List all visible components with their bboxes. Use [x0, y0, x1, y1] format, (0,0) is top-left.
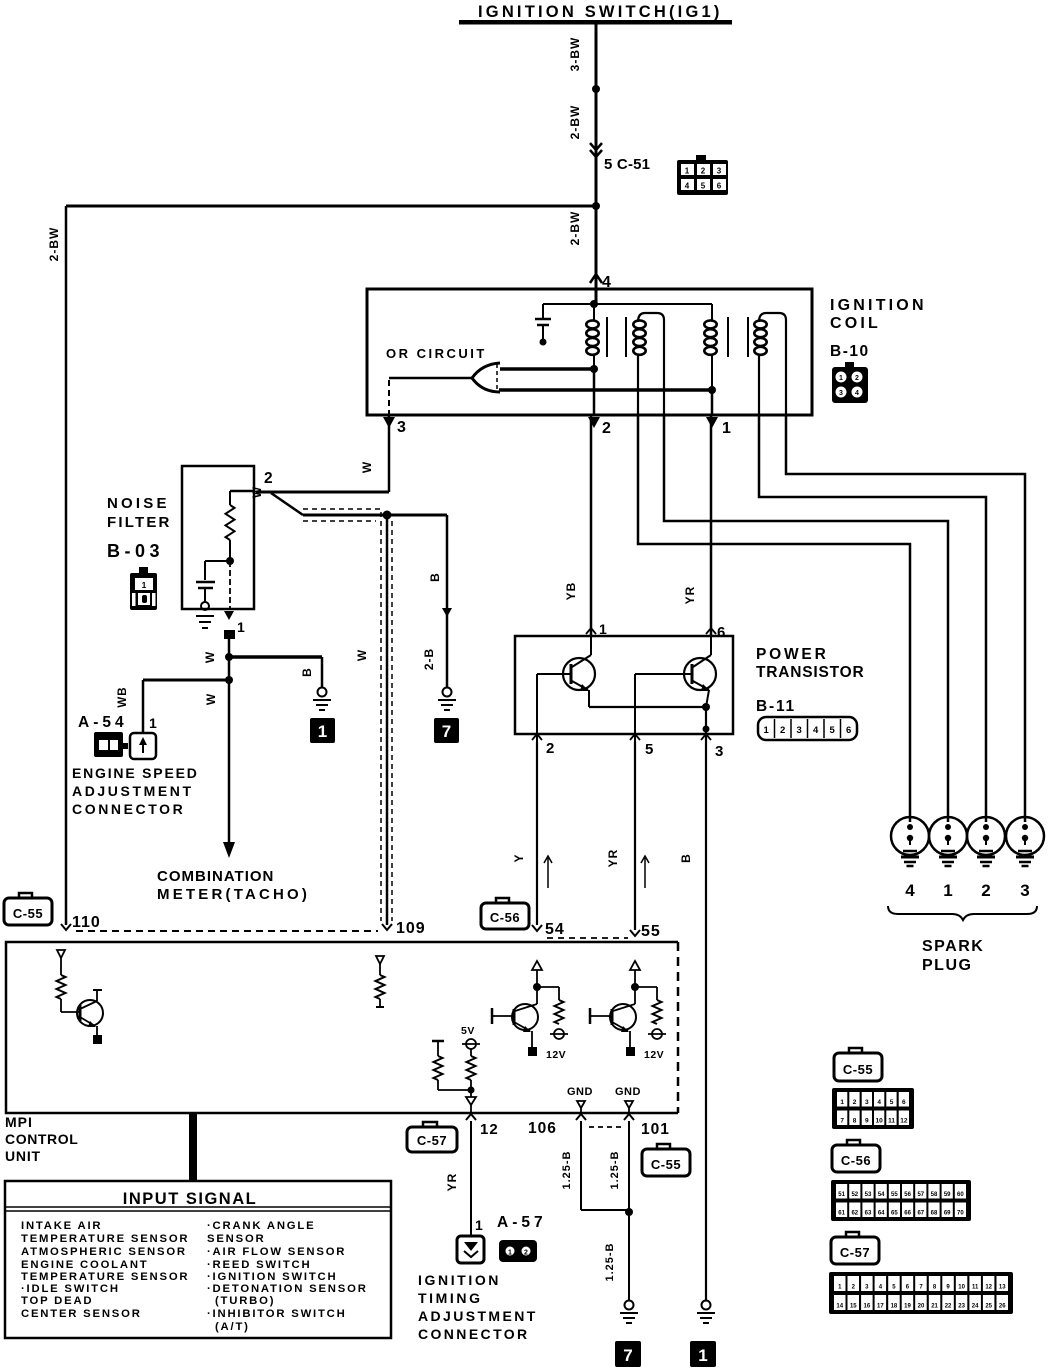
MPI internal resistor to 12V pin 54 [537, 986, 559, 988]
svg-text:ATMOSPHERIC SENSOR: ATMOSPHERIC SENSOR [21, 1246, 187, 1258]
svg-text:IGNITION: IGNITION [418, 1272, 501, 1288]
shield dashed lines of tacho wire [303, 508, 381, 510]
svg-text:10: 10 [876, 1118, 884, 1125]
MPI pin 109 terminal [382, 924, 392, 930]
svg-text:19: 19 [904, 1304, 911, 1310]
svg-text:NOISE: NOISE [107, 495, 170, 512]
svg-text:1: 1 [685, 167, 690, 176]
svg-text:C-55: C-55 [13, 906, 43, 921]
MPI internal transistor Q2 [536, 987, 538, 1004]
svg-text:INTAKE AIR: INTAKE AIR [21, 1220, 102, 1232]
junction dot coil1 primary bottom [590, 365, 598, 373]
MPI internal diode triangle pin 12 [466, 1097, 476, 1105]
MPI internal transistor Q3 [634, 987, 636, 1004]
power transistor pin 6 terminal [706, 628, 716, 634]
svg-text:8: 8 [853, 1118, 857, 1125]
ignition coil box B-10 [367, 289, 812, 415]
svg-text:IGNITION SWITCH(IG1): IGNITION SWITCH(IG1) [478, 3, 723, 21]
svg-text:1: 1 [698, 1346, 707, 1365]
svg-text:3: 3 [715, 743, 723, 760]
svg-text:Y: Y [512, 853, 526, 862]
svg-text:GND: GND [567, 1086, 593, 1098]
coil 2 primary winding [711, 304, 713, 320]
power transistor pin 3 terminal [701, 734, 711, 740]
svg-text:1: 1 [840, 1099, 844, 1106]
wire Q5 base to pin 5 [634, 674, 636, 742]
svg-text:SENSOR: SENSOR [207, 1233, 266, 1245]
spark plug wire to plug 2 [759, 415, 986, 817]
svg-text:106: 106 [528, 1120, 557, 1137]
wire 2-BW to connector C-51 [595, 89, 598, 206]
svg-text:18: 18 [891, 1304, 898, 1310]
svg-text:66: 66 [904, 1211, 911, 1217]
noise filter pin 1 terminal block [224, 630, 235, 639]
MPI pin 110 terminal [61, 924, 71, 930]
svg-text:CONTROL: CONTROL [5, 1131, 78, 1147]
svg-text:5 C-51: 5 C-51 [604, 156, 650, 173]
svg-text:6: 6 [846, 725, 851, 736]
svg-text:52: 52 [851, 1192, 858, 1198]
svg-text:57: 57 [917, 1192, 924, 1198]
svg-text:3-BW: 3-BW [568, 37, 582, 72]
svg-text:B: B [428, 572, 442, 582]
svg-text:YB: YB [564, 582, 578, 601]
svg-text:B-10: B-10 [830, 343, 870, 360]
svg-text:2: 2 [780, 725, 785, 736]
wire emitters to pin 3 [705, 707, 707, 742]
svg-text:FILTER: FILTER [107, 514, 172, 531]
svg-text:58: 58 [931, 1192, 938, 1198]
connector C-57 icon left [423, 1122, 437, 1129]
svg-text:2: 2 [701, 167, 706, 176]
arrow on 2-B wire [442, 608, 452, 617]
dashed connector line pins 106-101 [589, 1126, 622, 1128]
wire B pin3 to ground 1 [705, 742, 707, 1300]
svg-text:B-03: B-03 [107, 541, 164, 561]
coil 1 primary winding [593, 304, 595, 320]
MPI internal stub pin 109 [379, 999, 381, 1007]
wire Q4 base to pin 2 [536, 674, 538, 742]
svg-text:67: 67 [917, 1211, 924, 1217]
coil 1 core [606, 317, 608, 357]
shielded wire W to MPI pin 109 [386, 515, 389, 925]
svg-text:12V: 12V [546, 1049, 566, 1061]
spark plug 2 [967, 817, 1005, 855]
wire branch diagonal to shielded line [271, 493, 303, 515]
svg-text:65: 65 [891, 1211, 898, 1217]
svg-text:W: W [355, 649, 369, 661]
coil 2 primary to pin 1 [711, 390, 714, 415]
wire 3-BW from ignition switch [595, 24, 598, 89]
noise filter pin 1 arrow [224, 611, 234, 620]
junction dot emitters [702, 703, 710, 711]
svg-text:22: 22 [945, 1304, 952, 1310]
svg-text:20: 20 [918, 1304, 925, 1310]
svg-text:2: 2 [602, 420, 611, 437]
connector B-10 icon [845, 362, 854, 368]
svg-text:11: 11 [972, 1285, 979, 1291]
MPI internal base terminal Q3 [589, 1008, 592, 1024]
svg-text:26: 26 [999, 1304, 1006, 1310]
svg-text:55: 55 [891, 1192, 898, 1198]
junction dot in noise filter [226, 557, 234, 565]
OR circuit output wire [389, 377, 472, 380]
svg-text:9: 9 [865, 1118, 869, 1125]
svg-text:101: 101 [641, 1121, 670, 1138]
junction dot coil primary feed [590, 300, 598, 308]
svg-text:1.25-B: 1.25-B [609, 1150, 621, 1189]
svg-text:110: 110 [72, 914, 101, 931]
arrow at ignition coil pin 4 [590, 274, 602, 283]
MPI internal resistor 5V pullup [470, 1049, 472, 1056]
wire B branch to ground 1 [229, 655, 322, 659]
svg-text:C-55: C-55 [651, 1157, 681, 1172]
svg-text:54: 54 [878, 1192, 885, 1198]
svg-text:1.25-B: 1.25-B [561, 1150, 573, 1189]
svg-text:CONNECTOR: CONNECTOR [418, 1326, 530, 1342]
MPI internal input triangle pin 110 [57, 950, 65, 958]
noise filter output to pin 1 [229, 561, 231, 609]
connector B-03 icon [139, 567, 148, 574]
GND triangle pin 101 [625, 1101, 633, 1108]
wire 2-BW horizontal branch to MPI pin 110 [66, 205, 596, 208]
svg-text:3: 3 [797, 725, 802, 736]
svg-text:6: 6 [717, 182, 722, 191]
GND triangle pin 106 [577, 1101, 585, 1108]
connector C-57 icon pinout [846, 1232, 859, 1239]
coil pin 2 terminal [588, 417, 600, 428]
svg-text:OR CIRCUIT: OR CIRCUIT [386, 346, 487, 361]
svg-text:TRANSISTOR: TRANSISTOR [756, 664, 864, 681]
svg-text:(A/T): (A/T) [215, 1321, 250, 1333]
ground number box 1 left [310, 718, 335, 743]
svg-text:53: 53 [865, 1192, 872, 1198]
coil 2 secondary winding [754, 320, 766, 328]
power transistor pin 5 terminal [630, 734, 640, 740]
ground symbol upper 7 [443, 688, 452, 697]
svg-text:7: 7 [442, 722, 451, 741]
svg-text:6: 6 [717, 624, 725, 641]
junction dot ground wires [625, 1208, 633, 1216]
svg-text:1: 1 [237, 619, 245, 635]
svg-text:15: 15 [850, 1304, 857, 1310]
svg-text:109: 109 [396, 920, 426, 937]
emitter bus wire [589, 706, 706, 708]
svg-text:11: 11 [888, 1118, 895, 1125]
ground symbol 1 left [318, 688, 327, 697]
wire WB branch to A-54 [143, 679, 229, 682]
connector C-55 pin grid [832, 1088, 914, 1129]
OR output to pin 3 dashed [388, 380, 390, 414]
svg-text:23: 23 [958, 1304, 965, 1310]
svg-text:13: 13 [999, 1285, 1006, 1291]
svg-text:4: 4 [905, 881, 915, 900]
spark plug wire to plug 4 [638, 415, 910, 817]
svg-text:4: 4 [685, 182, 690, 191]
svg-text:·INHIBITOR SWITCH: ·INHIBITOR SWITCH [207, 1308, 347, 1320]
svg-text:4: 4 [813, 725, 819, 736]
wire 2-BW down to ignition coil [595, 206, 598, 302]
connector C-55 icon left [19, 893, 32, 900]
transistor Q4 [590, 637, 592, 655]
svg-text:B: B [679, 853, 693, 863]
ground number box 7 lower [615, 1341, 641, 1367]
svg-text:(TURBO): (TURBO) [215, 1295, 275, 1307]
connector C-56 icon pinout [847, 1140, 860, 1147]
svg-text:2: 2 [853, 1099, 857, 1106]
svg-text:24: 24 [972, 1304, 979, 1310]
MPI pin 55 terminal [630, 930, 640, 936]
svg-text:POWER: POWER [756, 646, 829, 663]
svg-text:61: 61 [838, 1211, 845, 1217]
svg-text:1: 1 [318, 722, 327, 741]
input signal arrow to MPI [189, 1112, 197, 1182]
OR circuit input 1 wire [500, 367, 594, 371]
svg-text:C-56: C-56 [490, 910, 520, 925]
svg-text:IGNITION: IGNITION [830, 297, 927, 314]
svg-text:55: 55 [641, 923, 661, 940]
OR circuit input 2 wire [499, 388, 712, 392]
svg-text:2-BW: 2-BW [568, 211, 582, 246]
svg-text:5: 5 [645, 741, 653, 758]
svg-text:69: 69 [944, 1211, 951, 1217]
svg-text:3: 3 [865, 1099, 869, 1106]
MPI pin 101 terminal [624, 1114, 634, 1120]
svg-text:51: 51 [838, 1192, 845, 1198]
svg-text:C-56: C-56 [841, 1153, 871, 1168]
junction dot shielded tacho wire [383, 511, 392, 520]
svg-text:1: 1 [508, 1250, 512, 1257]
svg-text:2: 2 [524, 1250, 528, 1257]
svg-text:YR: YR [606, 849, 620, 868]
input signal box [5, 1181, 391, 1338]
junction dot coil2 primary bottom [708, 386, 716, 394]
svg-text:C-55: C-55 [843, 1062, 873, 1077]
wire 2-B to ground 7 [446, 515, 449, 688]
svg-text:1: 1 [722, 420, 731, 437]
svg-text:54: 54 [545, 921, 565, 938]
junction dot pin 3 [703, 726, 710, 733]
svg-text:25: 25 [985, 1304, 992, 1310]
MPI internal wire to transistor Q1 [60, 999, 62, 1012]
MPI internal resistor left [432, 1040, 444, 1043]
svg-text:4: 4 [855, 390, 859, 397]
svg-text:1: 1 [839, 375, 843, 382]
svg-text:UNIT: UNIT [5, 1148, 41, 1164]
svg-text:COIL: COIL [830, 315, 881, 332]
wire YB coil pin2 to power transistor [590, 415, 593, 637]
svg-text:ENGINE SPEED: ENGINE SPEED [72, 765, 199, 781]
svg-text:2-B: 2-B [422, 648, 436, 670]
MPI internal wires to pin 12 node [437, 1080, 439, 1090]
power transistor pin 2 terminal [532, 734, 542, 740]
wire 1.25-B from pin 101 [628, 1121, 630, 1212]
coil pin 3 terminal [383, 417, 395, 428]
svg-text:70: 70 [957, 1211, 964, 1217]
OR circuit gate [472, 363, 500, 392]
ground symbol lower 1 [702, 1301, 711, 1310]
svg-text:14: 14 [836, 1304, 843, 1310]
connector A-54 icon [94, 732, 123, 757]
coil pin 1 terminal [706, 417, 718, 428]
junction dot to ground branch [225, 653, 233, 661]
connector C-51 icon [696, 155, 706, 161]
MPI control unit box [6, 942, 678, 1113]
svg-text:1: 1 [149, 715, 157, 731]
svg-text:·CRANK ANGLE: ·CRANK ANGLE [207, 1220, 315, 1232]
wire resistor to junction [229, 540, 231, 561]
junction dot to A-54 branch [225, 676, 233, 684]
wire W to noise filter pin 2 [256, 491, 389, 494]
svg-text:17: 17 [877, 1304, 884, 1310]
noise filter capacitor C2 [205, 560, 230, 562]
svg-text:C-57: C-57 [840, 1245, 870, 1260]
svg-text:5V: 5V [461, 1025, 475, 1037]
svg-text:3: 3 [1020, 881, 1029, 900]
svg-text:62: 62 [851, 1211, 858, 1217]
noise filter pin 2 internal wire [230, 490, 254, 493]
capacitor C1 in coil box [542, 304, 544, 318]
arrow to combination meter [223, 842, 235, 858]
svg-text:B-11: B-11 [756, 698, 796, 715]
svg-text:·IDLE SWITCH: ·IDLE SWITCH [21, 1283, 120, 1295]
svg-text:·AIR FLOW SENSOR: ·AIR FLOW SENSOR [207, 1246, 346, 1258]
spark plug 1 [929, 817, 967, 855]
svg-text:·DETONATION SENSOR: ·DETONATION SENSOR [207, 1283, 368, 1295]
svg-text:W: W [204, 693, 218, 705]
svg-text:12: 12 [480, 1121, 499, 1138]
svg-text:1: 1 [943, 881, 952, 900]
svg-text:A-54: A-54 [78, 714, 128, 731]
svg-text:12: 12 [900, 1118, 908, 1125]
MPI internal resistor pin 110 [57, 975, 66, 999]
MPI pin 12 terminal [466, 1114, 476, 1120]
svg-text:6: 6 [902, 1099, 906, 1106]
svg-text:1: 1 [764, 725, 770, 736]
svg-text:W: W [360, 461, 374, 473]
connector C-55 icon pinout [849, 1048, 862, 1055]
ground number box 1 lower [690, 1341, 716, 1367]
wire 1.25-B to ground 7 [628, 1212, 630, 1300]
svg-text:1: 1 [599, 621, 607, 637]
svg-text:MPI: MPI [5, 1114, 33, 1130]
svg-text:SPARK: SPARK [922, 938, 984, 955]
svg-text:12V: 12V [644, 1049, 664, 1061]
svg-text:2-BW: 2-BW [568, 105, 582, 140]
wire to tacho and ground [303, 514, 447, 517]
12V supply symbol pin 55 [652, 1029, 662, 1039]
svg-text:INPUT SIGNAL: INPUT SIGNAL [123, 1190, 257, 1208]
svg-text:60: 60 [957, 1192, 964, 1198]
junction dot pin 12 node [468, 1087, 475, 1094]
svg-text:21: 21 [931, 1304, 938, 1310]
MPI internal resistor to 12V pin 55 [635, 986, 657, 988]
svg-text:4: 4 [877, 1099, 881, 1106]
12V supply symbol pin 54 [554, 1029, 564, 1039]
spark plug group brace [888, 906, 1037, 920]
direction arrow on YR wire [644, 858, 646, 888]
svg-text:YR: YR [683, 586, 697, 605]
spark plug 4 [891, 817, 929, 855]
svg-text:1: 1 [475, 1217, 483, 1233]
svg-text:2: 2 [855, 375, 859, 382]
noise filter case ground [201, 602, 209, 610]
wire W coil pin3 down [388, 415, 391, 492]
svg-text:2: 2 [546, 740, 554, 757]
svg-text:12: 12 [985, 1285, 992, 1291]
svg-text:7: 7 [840, 1118, 844, 1125]
ground symbol lower 7 [625, 1301, 634, 1310]
transistor Q5 [710, 637, 712, 655]
svg-text:7: 7 [623, 1346, 632, 1365]
svg-text:64: 64 [878, 1211, 885, 1217]
svg-text:W: W [203, 651, 217, 663]
svg-text:·REED SWITCH: ·REED SWITCH [207, 1259, 311, 1271]
junction dot at 2-BW branch [592, 202, 600, 210]
svg-text:1: 1 [142, 580, 147, 590]
wire YR pin5 to MPI 55 [634, 742, 636, 930]
junction dot pin 55 node [631, 983, 639, 991]
connector A-57 terminal [457, 1236, 484, 1263]
svg-text:GND: GND [615, 1086, 641, 1098]
MPI internal resistor pin 109 [376, 975, 385, 999]
MPI pin 106 terminal [576, 1114, 586, 1120]
connector C-56 pin grid [831, 1180, 971, 1221]
power transistor box B-11 [515, 636, 733, 734]
MPI internal base terminal Q2 [491, 1008, 494, 1024]
svg-text:56: 56 [904, 1192, 911, 1198]
svg-text:5: 5 [701, 182, 706, 191]
svg-text:·IGNITION SWITCH: ·IGNITION SWITCH [207, 1271, 337, 1283]
svg-text:5: 5 [830, 725, 836, 736]
connector C-57 pin grid [829, 1272, 1013, 1314]
wire Y pin2 to MPI 54 [536, 742, 538, 925]
svg-text:TEMPERATURE SENSOR: TEMPERATURE SENSOR [21, 1271, 189, 1283]
svg-text:10: 10 [958, 1285, 965, 1291]
svg-text:PLUG: PLUG [922, 957, 972, 974]
connector A-57 icon [499, 1240, 537, 1262]
spark plug wire to plug 1 [664, 415, 948, 817]
connector B-11 icon [758, 717, 857, 740]
svg-text:ADJUSTMENT: ADJUSTMENT [72, 783, 194, 799]
svg-text:COMBINATION: COMBINATION [157, 868, 274, 885]
MPI internal input triangle pin 109 [376, 956, 384, 964]
svg-text:5: 5 [890, 1099, 894, 1106]
ground number box 7 upper [434, 718, 459, 743]
spark plug 3 [1006, 817, 1044, 855]
coil 1 secondary winding [633, 320, 645, 328]
svg-text:TOP DEAD: TOP DEAD [21, 1295, 93, 1307]
MPI internal triangle pin 55 [630, 961, 640, 970]
spark plug wire to plug 3 [786, 415, 1025, 817]
svg-text:TIMING: TIMING [418, 1290, 483, 1306]
svg-text:TEMPERATURE SENSOR: TEMPERATURE SENSOR [21, 1233, 189, 1245]
svg-text:3: 3 [717, 167, 722, 176]
svg-text:68: 68 [931, 1211, 938, 1217]
internal bus wire in coil box [543, 303, 712, 305]
wire 1.25-B from pin 106 [580, 1121, 582, 1210]
svg-text:16: 16 [864, 1304, 871, 1310]
dashed connector line pins 54-55 [547, 937, 628, 939]
connector C-55 icon lower [657, 1144, 670, 1151]
svg-text:C-57: C-57 [417, 1133, 447, 1148]
svg-text:63: 63 [865, 1211, 872, 1217]
coil 1 primary to pin 2 [593, 369, 596, 415]
wire YR coil pin1 to power transistor [710, 415, 713, 637]
svg-text:2: 2 [981, 881, 990, 900]
svg-text:2-BW: 2-BW [47, 227, 61, 262]
svg-text:B: B [300, 667, 314, 677]
